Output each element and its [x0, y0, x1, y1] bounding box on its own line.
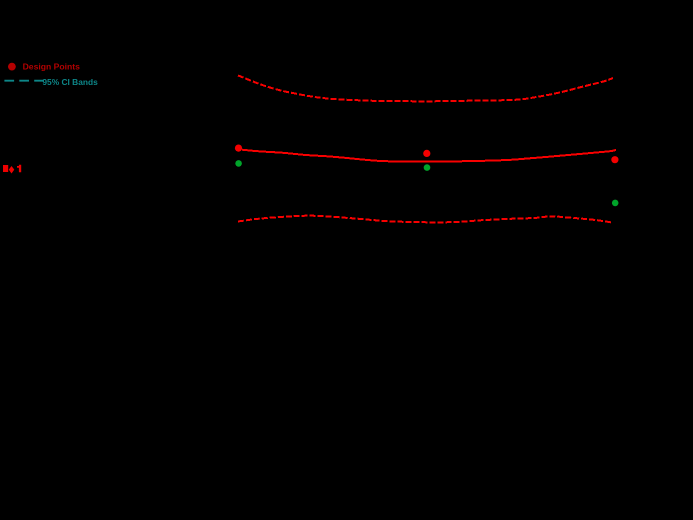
red annotation block (E+ 1 cluster): square: [3, 165, 8, 172]
lower 95% CI band (dashed red): [238, 216, 612, 223]
svg-text:Design Points: Design Points: [23, 62, 81, 72]
svg-text:95% CI Bands: 95% CI Bands: [42, 77, 98, 87]
design point red 3 (right): [611, 156, 618, 163]
green point 2 (middle): [424, 164, 431, 171]
design point red 2 (middle): [423, 150, 430, 157]
mean prediction curve (solid red): [242, 150, 616, 162]
green point 1 (left): [235, 160, 242, 167]
red annotation: digit 1: [17, 165, 21, 173]
legend sample: teal dashed line: [4, 80, 44, 82]
green point 3 (right): [612, 200, 619, 207]
red annotation: diamond: [9, 166, 15, 174]
legend marker: red circle: [8, 63, 16, 71]
design point red 1 (left): [235, 145, 242, 152]
upper 95% CI band (dashed red): [238, 75, 613, 101]
